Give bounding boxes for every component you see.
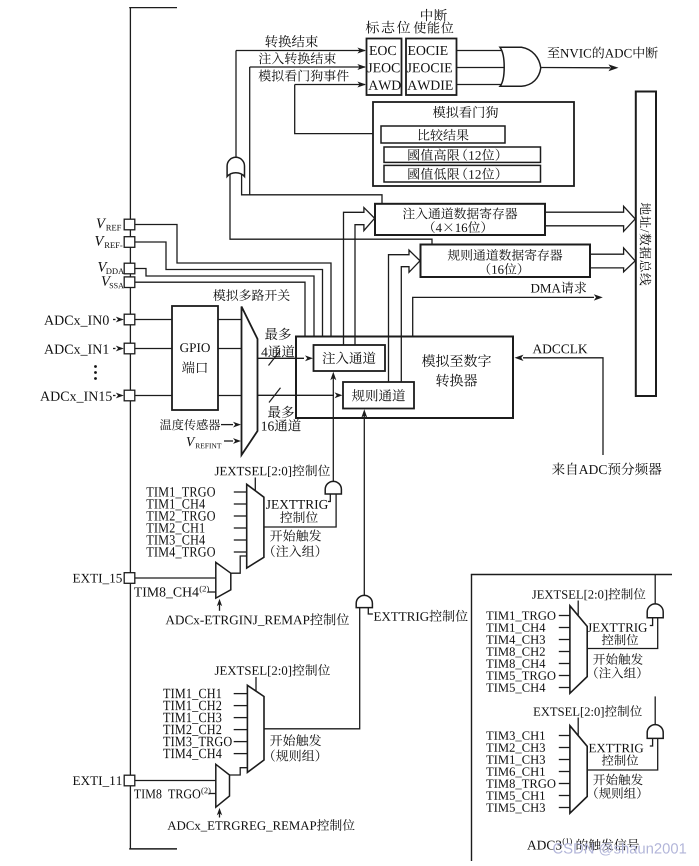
wire inset JEXTSEL control (577, 601, 579, 616)
label ADCx_IN1 (44, 345, 108, 356)
label VREFINT (187, 437, 196, 446)
wire OR output to NVIC (542, 67, 611, 69)
wire TIM4_CH4 tick (234, 753, 248, 755)
label inset TIM2_CH3 (486, 743, 545, 753)
and-gate G5 inset EXTTRIG (647, 725, 663, 739)
label inset 开始触发(注入组) (593, 653, 642, 665)
label 最多16通道 (268, 406, 294, 418)
wire 模拟看门狗事件 to AWD (295, 84, 365, 86)
label TIM1_CH4 (147, 499, 205, 510)
wire G5 output stub (654, 696, 656, 724)
wire TIM8_CH4 tick (208, 591, 216, 593)
label 温度传感器 (160, 419, 220, 430)
block 规则通道 (343, 382, 414, 409)
wire TIM8_TRGO tick (209, 793, 216, 795)
label inset 开始触发(规则组) (593, 774, 642, 786)
label VSSA (102, 276, 111, 286)
pin EXTI_11 (124, 775, 135, 786)
pin VDDA square (124, 263, 135, 274)
label inset JEXTSEL[2:0]控制位 (532, 590, 607, 600)
wire inset TIM5_CH4 tick (559, 687, 570, 689)
label JEXTSEL[2:0]控制位 (regular) (215, 666, 291, 677)
wire GPIO to mux ch1 (218, 348, 242, 350)
label ADCx_IN0 (44, 315, 109, 326)
wire JEXTSEL control to mux M4 (255, 677, 257, 692)
pin VREF- square (124, 237, 135, 248)
and-gate G2 JEXTTRIG (325, 481, 341, 494)
wire inset TIM1_CH4 tick (559, 627, 570, 629)
block 地址/数据总线 bus (636, 92, 656, 397)
label VDDA (98, 262, 107, 272)
wire 转换结束 to EOC (236, 50, 365, 52)
wire inset TIM8_CH4 tick (559, 663, 570, 665)
label inset TIM8_TRGO (486, 779, 555, 789)
wire JEOC vertical (249, 67, 251, 195)
wire M3 output to and-gate G2 (264, 494, 336, 527)
register 阈值高限(12位) (384, 147, 541, 162)
wire TIM4_TRGO tick (234, 551, 247, 553)
wire inset TIM2_CH3 tick (559, 747, 570, 749)
wire IN0 to GPIO (135, 319, 172, 321)
label inset TIM5_TRGO (486, 671, 555, 681)
label 转换结束 (265, 35, 318, 47)
label ADCx_ETRGREG_REMAP控制位 (167, 821, 316, 831)
wire G4 output up to frame (654, 575, 656, 604)
label TIM1_TRGO (147, 487, 215, 498)
label EXTTRIG控制位 (374, 612, 429, 621)
wire inset TIM5_TRGO tick (559, 675, 570, 677)
register 注入通道数据寄存器 (375, 204, 545, 235)
wire IN1 to GPIO (135, 348, 172, 350)
wire IN15 to GPIO (135, 395, 172, 397)
label 使能位 (414, 21, 454, 33)
label inset JEXTTRIG控制位 (587, 623, 647, 632)
wire EXTTRIG bit hook (368, 608, 373, 614)
label inset TIM5_CH4 (486, 683, 545, 693)
label TIM1_CH2 (163, 701, 221, 712)
or-gate G1 end-of-conversion (227, 157, 244, 176)
wire mux to 注入通道 (最多4通道) (258, 357, 305, 359)
mux M6 inset injected trigger select (570, 606, 587, 694)
wire AWD vertical and link to 比较结果 (295, 85, 381, 134)
label DMA请求 (531, 284, 561, 293)
label TIM2_TRGO (147, 511, 215, 522)
label VREF- (95, 236, 104, 246)
or-gate U1 interrupt OR (500, 47, 541, 86)
wire TIM1_CH2 tick (234, 705, 248, 707)
label inset TIM8_CH4 (486, 659, 545, 669)
label TIM1_CH3 (163, 713, 221, 724)
wire bottom-left stub (129, 848, 177, 850)
label 中断 (421, 9, 447, 21)
wire 注入转换结束 to JEOC (250, 66, 365, 68)
register 比较结果 (381, 126, 505, 143)
wire JEXTTRIG bit hook (328, 494, 330, 502)
label 最多4通道 (265, 328, 291, 340)
wire inset EXTSEL control (577, 718, 579, 736)
wire TIM2_CH1 tick (234, 527, 247, 529)
label TIM3_CH4 (147, 535, 205, 546)
wire GPIO to mux ch0 (218, 319, 242, 321)
label 模拟看门狗事件 (259, 70, 349, 82)
wire G3 output 开始触发(规则组) to 规则通道 (363, 416, 365, 596)
wire TIM2_CH2 tick (234, 729, 248, 731)
wire M2 output to M3 (231, 556, 247, 573)
wire inset TIM5_CH1 tick (559, 795, 570, 797)
label 模拟多路开关 (213, 289, 290, 301)
wire GPIO to mux ch15 (218, 395, 242, 397)
label TIM2_CH1 (147, 523, 205, 534)
wire inset TIM8_TRGO tick (559, 783, 570, 785)
mux M5 ETRGREG remap (216, 764, 230, 807)
slash 16-channel (269, 388, 281, 403)
wire mux to 规则通道 (最多16通道) (258, 394, 335, 396)
wire VREF- to ADC (135, 242, 323, 336)
block ADC3 inset frame (left+top edges) (471, 575, 473, 862)
block 模拟至数字转换器 ADC (296, 337, 513, 419)
block GPIO端口 (172, 306, 218, 410)
wire inset TIM1_TRGO tick (559, 615, 570, 617)
label vertical ellipsis (94, 365, 97, 380)
label inset TIM6_CH1 (486, 767, 545, 777)
wire VREF to ADC (135, 225, 331, 337)
wire ETRGREG_REMAP control arrow (219, 813, 221, 818)
wire TIM1_CH4 tick (234, 503, 247, 505)
wire M7 output to gate G5 (587, 738, 658, 770)
label TIM1_CH1 (163, 689, 221, 700)
wire EOCIE to OR gate (457, 50, 506, 52)
wire inset TIM1_CH3 tick (559, 759, 570, 761)
label 开始触发(规则组) (270, 734, 321, 746)
label 至NVIC的ADC中断 (548, 47, 560, 58)
label 标志位 (366, 21, 410, 34)
label inset TIM8_CH2 (486, 647, 545, 657)
label TIM8_CH4(2) (134, 587, 199, 598)
slash 4-channel (269, 351, 281, 366)
register box 中断使能位 EOCIE/JEOCIE/AWDIE (406, 39, 457, 96)
wire inset EXTTRIG hook (650, 738, 653, 746)
label JEXTTRIG控制位 (266, 500, 328, 509)
label 模拟看门狗 (433, 106, 498, 118)
wire left pin-rail vertical (129, 8, 131, 850)
wire VDDA to ADC (135, 269, 314, 337)
pin ADCx_IN0 (124, 314, 135, 325)
label EXTI_11 (73, 776, 122, 786)
register 阈值低限(12位) (384, 165, 541, 182)
register 规则通道数据寄存器 (421, 245, 591, 278)
mux M3 injected trigger select (247, 484, 264, 568)
wire EOC vertical from gate (235, 51, 237, 159)
bus-arrow injected register to data bus (hollow) (545, 206, 635, 231)
wire TIM1_TRGO tick (234, 491, 247, 493)
label inset TIM4_CH3 (486, 635, 545, 645)
wire EXTI_15 to mux M2 (135, 577, 216, 579)
pin VSSA square (124, 277, 135, 288)
mux M2 ETRGINJ remap (216, 562, 231, 598)
wire M5 output to M4 (230, 768, 248, 775)
pin ADCx_IN15 (124, 390, 135, 401)
label TIM2_CH2 (163, 725, 221, 736)
wire TIM3_TRGO tick (234, 741, 248, 743)
label inset TIM3_CH1 (486, 731, 545, 741)
register box 标志位 EOC/JEOC/AWD (367, 39, 402, 96)
label ADCCLK (533, 344, 588, 353)
wire 温度传感器 to mux (221, 424, 233, 426)
wire M4 output up to G3 (264, 608, 360, 729)
wire G1 right input from injected register (242, 172, 382, 203)
label VREF (97, 219, 106, 229)
wire JEXTSEL control to mux M3 (254, 478, 256, 492)
label EXTI_15 (73, 574, 122, 584)
wire G2 output 开始触发(注入组) to 注入通道 (332, 378, 334, 481)
bus-arrow 规则通道 to regular register (hollow) (389, 250, 421, 382)
bus-arrow 注入通道 to injected register (hollow) (344, 208, 375, 345)
label 地址/数据总线 (rotated) (640, 203, 652, 286)
label inset TIM5_CH1 (486, 791, 545, 801)
label 来自ADC预分频器 (552, 463, 577, 475)
label TIM4_CH4 (163, 749, 221, 760)
label TIM4_TRGO (147, 547, 215, 558)
label caption ADC3(1)的触发信号 (527, 841, 561, 850)
label 开始触发(注入组) (270, 530, 321, 542)
wire AWDIE to OR gate (457, 84, 506, 86)
label inset TIM1_CH3 (486, 755, 545, 765)
wire VREFINT to mux (224, 440, 233, 442)
label inset EXTTRIG控制位 (589, 744, 643, 753)
bus-arrow regular register to data bus (hollow) (590, 248, 635, 272)
wire inset TIM6_CH1 tick (559, 771, 570, 773)
label 注入转换结束 (259, 52, 336, 64)
wire M6 output to gate G4 (587, 618, 658, 649)
pin ADCx_IN1 (124, 343, 135, 354)
label ADCx-ETRGINJ_REMAP控制位 (166, 616, 310, 626)
watermark CSDN @shaun2001 (553, 843, 686, 856)
label inset TIM1_TRGO (486, 611, 555, 621)
wire ADCCLK into ADC (523, 358, 603, 455)
mux M1 analog multiplexer (242, 307, 258, 456)
wire ETRGINJ_REMAP control arrow (219, 604, 221, 611)
wire top-left stub (129, 7, 177, 9)
mux M4 regular trigger select (247, 685, 264, 772)
wire inset TIM4_CH3 tick (559, 639, 570, 641)
block 注入通道 (314, 345, 386, 371)
wire JEOCIE to OR gate (457, 67, 506, 69)
wire TIM2_TRGO tick (234, 515, 247, 517)
label TIM3_TRGO (163, 737, 231, 748)
wire inset TIM3_CH1 tick (559, 735, 570, 737)
wire DMA请求 (413, 297, 594, 336)
pin VREF square (124, 219, 135, 230)
wire inset JEXTTRIG hook (650, 618, 653, 626)
wire TIM1_CH1 tick (234, 693, 248, 695)
mux M7 inset regular trigger select (570, 726, 587, 814)
label inset EXTSEL[2:0]控制位 (533, 707, 603, 717)
wire TIM3_CH4 tick (234, 539, 247, 541)
block 模拟看门狗 box (373, 102, 574, 186)
and-gate G4 inset JEXTTRIG (647, 604, 663, 618)
wire inset TIM5_CH3 tick (559, 807, 570, 809)
label inset TIM1_CH4 (486, 623, 545, 633)
label inset TIM5_CH3 (486, 803, 545, 813)
wire G1 left input from regular register (230, 172, 432, 244)
wire EXTI_11 to mux M5 (135, 780, 216, 782)
wire TIM1_CH3 tick (234, 717, 248, 719)
label ADCx_IN15 (40, 392, 112, 403)
wire VSSA to ADC (135, 282, 305, 336)
and-gate G3 EXTTRIG (356, 595, 372, 607)
label TIM8_TRGO(2) (134, 789, 200, 798)
label JEXTSEL[2:0]控制位 (215, 466, 291, 477)
wire inset TIM8_CH2 tick (559, 651, 570, 653)
